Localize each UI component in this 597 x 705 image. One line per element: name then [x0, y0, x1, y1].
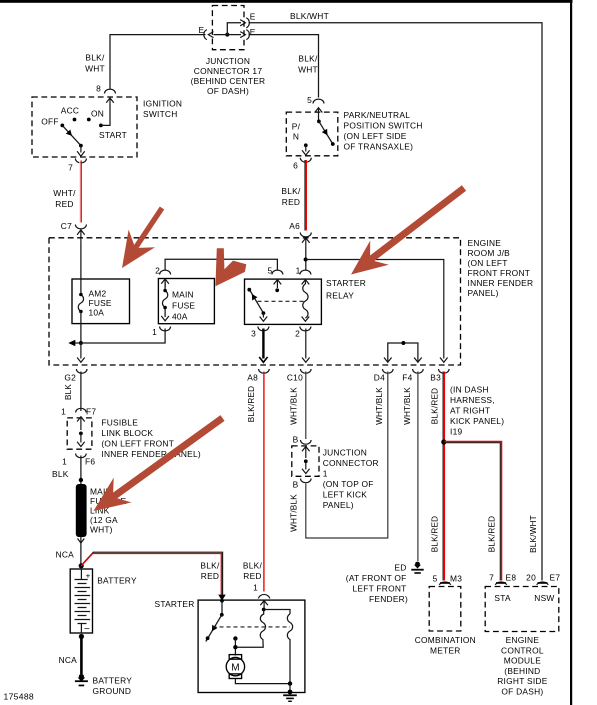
svg-text:WHT/BLK: WHT/BLK [290, 494, 299, 532]
svg-text:M3: M3 [450, 574, 462, 584]
wire AM2 junction to G2 [77, 343, 85, 362]
svg-text:5: 5 [307, 95, 312, 105]
svg-text:PANEL): PANEL) [468, 288, 499, 298]
starter motor feed nodes [233, 636, 237, 640]
svg-text:WHT: WHT [85, 64, 105, 74]
junction connector 1 element [302, 447, 310, 459]
svg-text:M: M [231, 662, 239, 673]
svg-text:AT RIGHT: AT RIGHT [450, 406, 490, 416]
connector A8 [259, 369, 270, 373]
svg-text:1: 1 [323, 469, 328, 479]
starter motor to ground wire [235, 679, 290, 684]
connector G2 [76, 369, 87, 411]
battery cells [75, 569, 88, 580]
battery top node [79, 563, 84, 568]
svg-text:1: 1 [61, 407, 66, 417]
connector D4 [383, 369, 394, 373]
wire WHT/BLK F4 to ground ED [417, 372, 419, 562]
svg-text:10A: 10A [89, 308, 105, 318]
svg-text:RIGHT SIDE: RIGHT SIDE [497, 676, 547, 686]
junction connector J17 box [212, 6, 244, 50]
svg-text:BLK/RED: BLK/RED [431, 388, 440, 424]
svg-text:INNER FENDER PANEL): INNER FENDER PANEL) [101, 449, 201, 459]
connector C7 [75, 225, 86, 229]
border top bar [0, 0, 573, 3]
wire MAIN fuse pin1 to AM2 junction [83, 329, 165, 344]
svg-text:(ON LEFT SIDE: (ON LEFT SIDE [344, 131, 407, 141]
connector C10 [301, 369, 312, 373]
svg-text:CONNECTOR: CONNECTOR [323, 458, 379, 468]
P/N pin 6 contact [304, 143, 308, 147]
svg-text:BLK/: BLK/ [85, 53, 105, 63]
wire relay pin2 to C10 [302, 329, 310, 363]
svg-text:STA: STA [494, 593, 511, 603]
wire WHT/RED pin7 to C7 [79, 161, 81, 223]
starter hold-in coil [287, 614, 292, 684]
junction connector 1 box [292, 446, 319, 476]
J17 left pin E terminal [204, 30, 207, 40]
svg-text:OF DASH): OF DASH) [501, 687, 543, 697]
svg-text:INNER FENDER: INNER FENDER [468, 278, 534, 288]
connector F4 [413, 369, 424, 373]
svg-text:PARK/NEUTRAL: PARK/NEUTRAL [344, 110, 411, 120]
svg-text:SWITCH: SWITCH [143, 109, 178, 119]
svg-text:5: 5 [433, 574, 438, 584]
wire relay pin1 junction to B3 [306, 260, 448, 363]
svg-text:(ON LEFT FRONT: (ON LEFT FRONT [101, 439, 174, 449]
svg-text:LEFT FRONT: LEFT FRONT [353, 584, 407, 594]
wire fusible link to battery [80, 537, 82, 564]
wire A6 to relay pin1 with junction [305, 248, 307, 271]
svg-text:NCA: NCA [56, 550, 75, 560]
svg-text:E8: E8 [506, 573, 517, 583]
wire arm to pin 7 [77, 146, 85, 157]
connector F6 [76, 454, 87, 458]
P/N pin 6 connector [300, 158, 311, 162]
svg-text:BLK: BLK [52, 469, 69, 479]
wire BLK/WHT ignition pin8 to J17 [110, 35, 206, 89]
svg-text:P/: P/ [292, 122, 301, 132]
AM2 fuse box [72, 279, 130, 324]
red arrow at starter relay [351, 241, 389, 275]
svg-text:BLK/RED: BLK/RED [431, 516, 440, 552]
svg-text:BLK: BLK [64, 384, 73, 400]
svg-text:B: B [293, 480, 299, 490]
svg-text:RED: RED [201, 571, 219, 581]
svg-text:PANEL): PANEL) [323, 500, 354, 510]
svg-text:WHT): WHT) [90, 525, 113, 535]
svg-text:RED: RED [55, 199, 73, 209]
relay pin5 connector [272, 270, 283, 274]
svg-text:RED: RED [282, 197, 300, 207]
ignition pin 8 connector [105, 89, 116, 93]
svg-text:BLK/: BLK/ [243, 561, 263, 571]
ignition pin 7 connector [75, 159, 86, 163]
starter motor M [229, 655, 241, 660]
svg-text:D4: D4 [374, 373, 385, 383]
svg-text:7: 7 [68, 163, 73, 173]
svg-text:STARTER: STARTER [155, 599, 195, 609]
wire BLK/RED B3 to I19 junction [442, 372, 444, 581]
combination meter connector [439, 582, 451, 585]
P/N switch arm [317, 120, 321, 124]
relay pin5 contact [275, 288, 279, 292]
svg-text:LINK BLOCK: LINK BLOCK [101, 428, 153, 438]
relay pin3 connector [258, 327, 269, 331]
svg-text:CONNECTOR 17: CONNECTOR 17 [194, 66, 263, 76]
svg-text:WHT: WHT [298, 65, 318, 75]
svg-text:POSITION SWITCH: POSITION SWITCH [344, 121, 423, 131]
svg-text:BLK/: BLK/ [298, 54, 318, 64]
junction dot AM2 out / MAIN fuse pin1 [79, 341, 83, 345]
svg-text:BLK/: BLK/ [281, 186, 301, 196]
wire relay pin3 to A8 (thick) [262, 329, 264, 359]
junction connector 1 top connector [301, 440, 312, 444]
ground ED symbol [415, 562, 420, 567]
svg-text:LEFT KICK: LEFT KICK [323, 490, 368, 500]
relay contact arm [250, 291, 263, 314]
svg-text:E: E [198, 25, 204, 35]
svg-text:A6: A6 [289, 221, 300, 231]
connector B3 [439, 369, 450, 373]
svg-text:METER: METER [430, 645, 461, 655]
connector F7 [76, 408, 87, 412]
main fusible link (thick element) [76, 484, 87, 537]
junction connector J17 internal node [225, 33, 229, 37]
MAIN fuse pin2 connector [160, 270, 171, 274]
wire BLK/RED A8 to starter pin1 [263, 372, 265, 592]
combination meter box [429, 587, 461, 632]
svg-text:OFF: OFF [41, 117, 59, 127]
engine room J/B dashed box [49, 238, 461, 365]
red arrow at AM2 fuse [122, 230, 155, 268]
svg-text:40A: 40A [172, 312, 188, 322]
svg-text:C7: C7 [61, 221, 72, 231]
svg-text:OF DASH): OF DASH) [207, 86, 249, 96]
svg-text:NSW: NSW [534, 593, 554, 603]
svg-text:7: 7 [489, 573, 494, 583]
svg-text:6: 6 [293, 161, 298, 171]
svg-text:FUSE: FUSE [89, 298, 112, 308]
relay arm to pin3 [260, 313, 268, 321]
svg-text:MAIN: MAIN [172, 290, 194, 300]
MAIN fuse element [162, 282, 167, 317]
svg-text:8: 8 [96, 84, 101, 94]
svg-text:BLK/RED: BLK/RED [247, 386, 256, 422]
svg-text:3: 3 [251, 329, 256, 339]
svg-text:175488: 175488 [4, 692, 34, 702]
svg-text:(AT FRONT OF: (AT FRONT OF [346, 573, 407, 583]
svg-text:ROOM J/B: ROOM J/B [468, 248, 511, 258]
starter pull-in coil [238, 610, 266, 648]
svg-text:IGNITION: IGNITION [143, 99, 182, 109]
svg-text:E: E [250, 27, 256, 37]
svg-text:2: 2 [295, 329, 300, 339]
red arrow at MAIN fuse [215, 248, 246, 286]
ECM STA connector [495, 582, 507, 585]
wire START to pin8 [101, 104, 110, 125]
ignition contact ACC [73, 118, 77, 122]
svg-text:I19: I19 [450, 427, 462, 437]
svg-text:HARNESS,: HARNESS, [450, 395, 495, 405]
junction node I19 [441, 439, 446, 444]
svg-text:(BEHIND CENTER: (BEHIND CENTER [191, 76, 266, 86]
svg-text:BATTERY: BATTERY [97, 576, 137, 586]
svg-text:A8: A8 [247, 373, 258, 383]
svg-text:WHT/BLK: WHT/BLK [375, 387, 384, 425]
ECM box [485, 587, 559, 632]
svg-text:N: N [293, 132, 299, 142]
svg-text:G2: G2 [64, 373, 76, 383]
connector A6 [300, 233, 311, 237]
ignition contact OFF [60, 124, 64, 128]
wire BLK/WHT J17 top E to right side down to ECM [249, 23, 543, 581]
relay pin2 connector [300, 327, 311, 331]
starter mech dashed link [213, 626, 291, 628]
svg-text:BLK/WHT: BLK/WHT [529, 515, 538, 553]
svg-text:1: 1 [152, 327, 157, 337]
ECM NSW connector [537, 582, 549, 585]
svg-text:WHT/: WHT/ [53, 188, 76, 198]
wire battery to ground (thick) [80, 637, 83, 675]
J17 top right pin E terminal [240, 20, 245, 26]
relay pin1 connector [300, 270, 311, 274]
svg-text:JUNCTION: JUNCTION [206, 56, 250, 66]
svg-text:RED: RED [243, 571, 261, 581]
fusible link block element [77, 417, 85, 431]
J17 bottom right pin E terminal [240, 32, 245, 38]
svg-text:RELAY: RELAY [326, 290, 354, 300]
relay coil [303, 284, 308, 318]
svg-text:KICK PANEL): KICK PANEL) [450, 416, 504, 426]
svg-text:E7: E7 [550, 573, 561, 583]
MAIN fuse pin1 connector [160, 327, 171, 331]
battery box [70, 569, 92, 633]
svg-text:FUSE: FUSE [172, 301, 195, 311]
ignition contact START [99, 124, 103, 128]
relay coil to pin2 [302, 317, 310, 322]
svg-text:FRONT FRONT: FRONT FRONT [468, 268, 531, 278]
svg-text:BLK/: BLK/ [200, 561, 220, 571]
svg-text:FUSIBLE: FUSIBLE [101, 418, 138, 428]
svg-text:(12 GA: (12 GA [90, 515, 118, 525]
starter solenoid feed arrowhead [218, 595, 226, 601]
wire MAIN fuse pin2 to relay pin5 [165, 259, 277, 270]
stub arrow to other circuits [74, 342, 81, 344]
relay fixed contact left [247, 288, 251, 292]
border right line [570, 0, 572, 705]
AM2 fuse element [80, 243, 82, 295]
svg-text:1: 1 [62, 457, 67, 467]
svg-text:WHT/BLK: WHT/BLK [403, 387, 412, 425]
svg-text:CONTROL: CONTROL [501, 645, 544, 655]
svg-text:ACC: ACC [61, 106, 79, 116]
battery ground symbol [79, 674, 84, 679]
svg-text:(BEHIND: (BEHIND [504, 666, 540, 676]
svg-text:B3: B3 [430, 373, 441, 383]
wire WHT/BLK JC1 back up to D4 [306, 372, 388, 539]
svg-text:E: E [250, 12, 256, 22]
ignition switch arm [63, 126, 81, 145]
red arrow at main fusible link [94, 478, 132, 511]
svg-text:20: 20 [526, 573, 536, 583]
svg-text:−: − [84, 624, 90, 635]
svg-text:AM2: AM2 [89, 289, 107, 299]
MAIN fuse box [158, 279, 214, 324]
wire pin1 node to hold coil [264, 610, 290, 615]
starter relay box [245, 279, 322, 324]
starter solenoid contact [221, 601, 223, 615]
ignition switch box [32, 97, 137, 157]
wire BLK/WHT J17 bottom E to P/N switch [249, 35, 319, 98]
svg-text:COMBINATION: COMBINATION [415, 635, 476, 645]
svg-text:JUNCTION: JUNCTION [323, 448, 367, 458]
svg-text:1: 1 [296, 266, 301, 276]
svg-text:OF TRANSAXLE): OF TRANSAXLE) [344, 142, 414, 152]
wire F6 to main fusible link [80, 456, 82, 485]
svg-text:ENGINE: ENGINE [468, 238, 502, 248]
svg-text:BLK/RED: BLK/RED [488, 516, 497, 552]
svg-text:F7: F7 [86, 407, 96, 417]
svg-text:FENDER): FENDER) [369, 594, 408, 604]
ignition contact ON [87, 118, 91, 122]
svg-text:MODULE: MODULE [504, 656, 541, 666]
svg-text:(ON TOP OF: (ON TOP OF [323, 479, 374, 489]
battery bottom node [79, 634, 84, 639]
P/N pin 5 connector [313, 99, 324, 103]
svg-text:BATTERY: BATTERY [93, 676, 133, 686]
svg-text:START: START [99, 130, 127, 140]
starter ground [288, 690, 293, 695]
starter pin1 connector [258, 594, 269, 598]
svg-text:1: 1 [253, 583, 258, 593]
svg-text:ON: ON [91, 109, 104, 119]
starter box [198, 600, 305, 692]
svg-text:F6: F6 [85, 457, 95, 467]
svg-text:F4: F4 [402, 373, 412, 383]
starter pin1 entry [260, 600, 268, 606]
junction connector 1 bottom connector [301, 479, 312, 483]
wire BLK/RED I19 to ECM STA [443, 443, 500, 581]
svg-text:WHT/BLK: WHT/BLK [290, 387, 299, 425]
svg-text:NCA: NCA [59, 655, 78, 665]
svg-text:STARTER: STARTER [326, 278, 366, 288]
wire BLK/RED pin6 to A6 [304, 160, 306, 231]
svg-text:ENGINE: ENGINE [506, 635, 540, 645]
svg-text:C10: C10 [287, 373, 303, 383]
svg-text:BLK/WHT: BLK/WHT [290, 11, 329, 21]
svg-text:ED: ED [394, 563, 406, 573]
wire WHT/BLK C10 to junction connector 1 [305, 372, 307, 440]
wire BLK/RED battery to starter solenoid [82, 552, 223, 596]
svg-text:(ON LEFT: (ON LEFT [468, 258, 508, 268]
svg-text:B: B [293, 435, 299, 445]
relay mech dashed link [258, 300, 306, 302]
svg-text:GROUND: GROUND [93, 686, 132, 696]
svg-text:(IN DASH: (IN DASH [450, 385, 489, 395]
bridge D4-F4 inside J/B [388, 343, 418, 361]
fusible link block box [67, 418, 92, 449]
park/neutral position switch box [286, 112, 338, 156]
